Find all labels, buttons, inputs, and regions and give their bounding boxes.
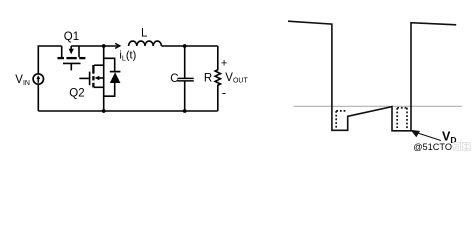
svg-text:-: -	[222, 85, 226, 100]
svg-text:C: C	[170, 73, 178, 85]
svg-text:R: R	[204, 73, 212, 85]
svg-text:+: +	[221, 58, 227, 70]
svg-text:Q1: Q1	[64, 31, 79, 43]
svg-text:@51CTO: @51CTO	[413, 142, 452, 152]
svg-text:Q2: Q2	[69, 87, 84, 99]
svg-text:L: L	[141, 27, 148, 39]
